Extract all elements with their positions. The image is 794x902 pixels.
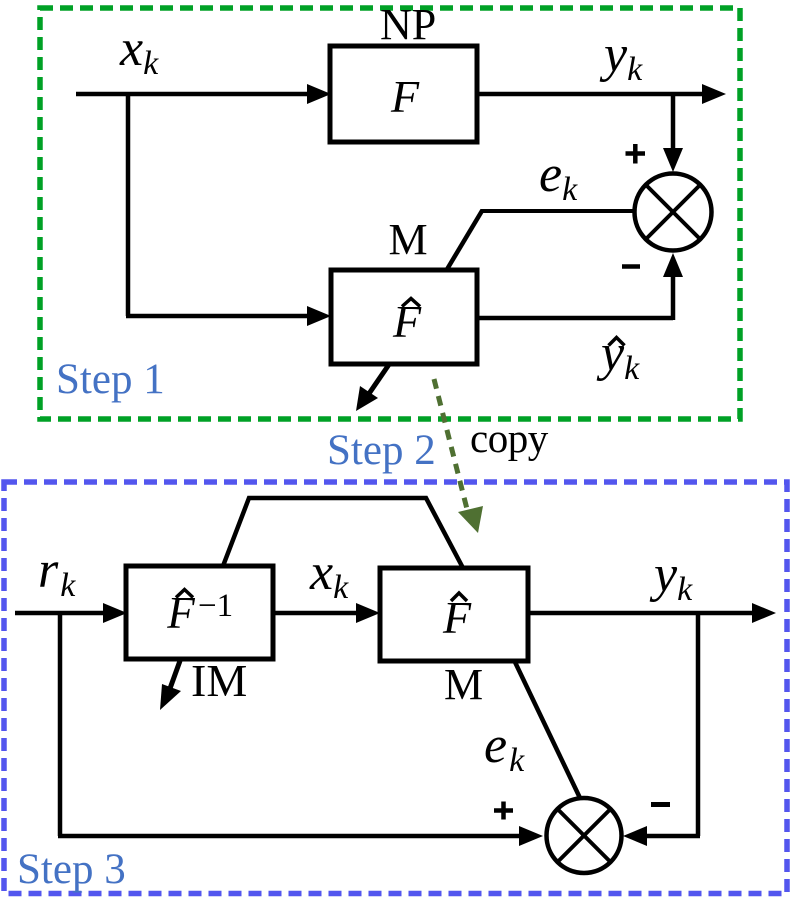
label plus top summer bbox=[626, 151, 646, 156]
label plus bottom summer bbox=[494, 808, 513, 813]
svg-text:IM: IM bbox=[191, 655, 247, 706]
svg-text:−1: −1 bbox=[198, 588, 233, 624]
block Fhat (M) bbox=[331, 270, 477, 364]
wire yk output bbox=[477, 92, 708, 97]
svg-text:M: M bbox=[444, 660, 483, 709]
label minus top summer bbox=[622, 264, 640, 269]
svg-text:Step 1: Step 1 bbox=[56, 356, 165, 403]
wire xk to Fhat bbox=[126, 314, 312, 319]
wire top link Fhat-inv to Fhat bbox=[223, 498, 463, 568]
arrow IM out of Fhat-inv bottom bbox=[168, 658, 181, 694]
summer S1 bbox=[635, 174, 712, 251]
summer S2 bbox=[547, 798, 622, 873]
svg-text:Step 2: Step 2 bbox=[327, 427, 436, 474]
svg-text:M: M bbox=[388, 215, 427, 264]
blue dashed box Step 3 bbox=[4, 482, 787, 894]
wire ek from Fhat to summer bbox=[481, 209, 634, 213]
node rk branch / feedback wire bbox=[58, 613, 63, 836]
dashed copy arrow bbox=[434, 379, 468, 513]
node xk branch bbox=[126, 92, 131, 316]
block Fhat (M) bottom bbox=[380, 568, 528, 661]
wire yk output bottom bbox=[528, 611, 758, 616]
svg-text:copy: copy bbox=[470, 415, 549, 461]
svg-text:NP: NP bbox=[380, 0, 436, 49]
wire yk branch down to summer bbox=[671, 92, 676, 153]
wire xk input to F bbox=[76, 92, 312, 97]
block F (NP) bbox=[330, 46, 477, 142]
wire ek diagonal to summer bbox=[514, 660, 580, 798]
green dashed box Step 1 bbox=[40, 8, 740, 419]
wire yk branch down to summer bbox=[696, 613, 701, 836]
wire rk input bbox=[15, 611, 108, 616]
svg-text:Step 3: Step 3 bbox=[17, 846, 126, 893]
wire Fhat-inv to Fhat bbox=[273, 611, 361, 616]
label minus bottom summer bbox=[651, 802, 670, 807]
arrow out of Fhat bottom bbox=[366, 363, 390, 398]
svg-text:F: F bbox=[390, 71, 420, 122]
block Fhat inverse (IM) bbox=[126, 566, 273, 659]
wire yhat to summer bbox=[477, 316, 673, 321]
